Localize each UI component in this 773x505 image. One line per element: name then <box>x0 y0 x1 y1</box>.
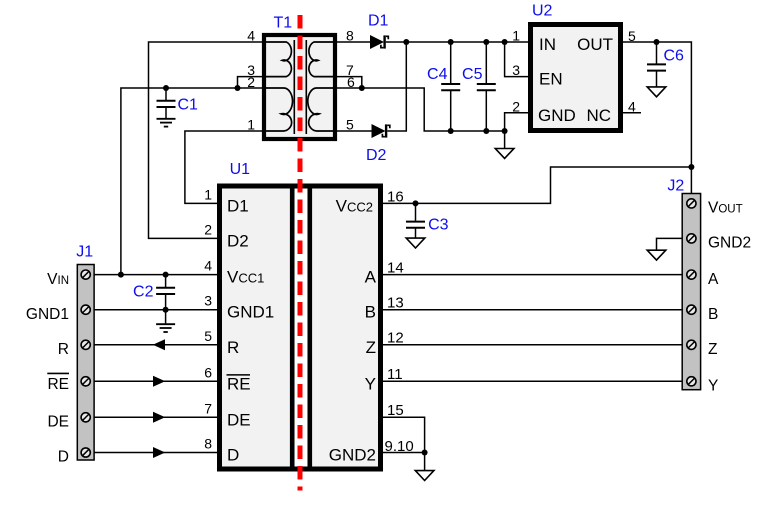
svg-text:D: D <box>58 449 69 466</box>
connector J1 <box>77 265 94 461</box>
svg-text:VCC2: VCC2 <box>336 196 373 215</box>
capacitor C3 <box>406 203 425 238</box>
wire R row <box>94 344 217 346</box>
svg-text:1: 1 <box>204 186 212 202</box>
ground C1 (earth) <box>157 119 176 127</box>
svg-text:C2: C2 <box>133 284 154 301</box>
node C2 bottom <box>163 307 169 313</box>
isolation barrier (red dashed line) <box>298 15 303 491</box>
node C5 top <box>483 39 489 45</box>
svg-text:1: 1 <box>512 27 520 43</box>
J1 terminal GND1 <box>81 305 90 314</box>
T1 primary winding upper (pins 4-3) <box>265 42 291 77</box>
arrow D (input, points right) <box>153 447 165 458</box>
node C1 tap <box>163 85 169 91</box>
svg-text:DE: DE <box>47 414 69 431</box>
wire T1 pin8 to D1 anode <box>337 41 370 43</box>
transformer T1 <box>264 35 335 139</box>
svg-text:GND2: GND2 <box>708 235 751 252</box>
J2 terminal Z <box>687 340 696 349</box>
ground C3 <box>406 238 425 248</box>
wire GND1 row <box>94 309 217 311</box>
connector J2 <box>682 194 700 390</box>
svg-text:RE: RE <box>227 374 251 393</box>
capacitor C4 <box>441 42 460 131</box>
wire U1 Y row to J2 <box>383 380 682 382</box>
arrow DE (input, points right) <box>153 412 165 423</box>
wire T1 pin4 to U1 pin2 (D2) <box>149 42 263 238</box>
svg-text:OUT: OUT <box>577 35 613 54</box>
svg-text:6: 6 <box>204 364 212 380</box>
svg-text:8: 8 <box>204 436 212 452</box>
svg-text:GND: GND <box>538 106 576 125</box>
wire T1 pin2 net to VIN <box>121 88 262 275</box>
node T1 pin2/pin3 junction <box>235 85 241 91</box>
svg-text:D: D <box>227 446 239 465</box>
svg-text:C6: C6 <box>664 48 685 65</box>
svg-text:U1: U1 <box>230 161 251 178</box>
svg-text:EN: EN <box>539 70 563 89</box>
wire U2 OUT to J2 VOUT <box>623 42 691 203</box>
diode D1 (schottky) <box>370 35 388 49</box>
node C5 bottom <box>483 128 489 134</box>
node VOUT net joint <box>688 164 694 170</box>
wire U2 NC stub <box>623 112 641 114</box>
node EN tie to rail <box>502 39 508 45</box>
svg-text:C4: C4 <box>427 66 448 83</box>
svg-text:VCC1: VCC1 <box>227 268 264 287</box>
svg-text:DE: DE <box>227 410 251 429</box>
svg-text:J2: J2 <box>667 177 684 194</box>
J1 RE overline <box>47 372 69 374</box>
node T1 pin6/pin7 junction <box>359 85 365 91</box>
J1 terminal R <box>81 340 90 349</box>
T1 core lines <box>294 40 306 134</box>
svg-text:A: A <box>708 271 719 288</box>
svg-text:T1: T1 <box>274 15 293 32</box>
wire U2 GND to return rail <box>505 113 528 131</box>
T1 primary winding lower (pins 2-1) <box>265 88 293 131</box>
node D2 riser / rail <box>403 39 409 45</box>
J1 terminal VIN <box>81 270 90 279</box>
capacitor C6 <box>647 42 666 87</box>
svg-text:C3: C3 <box>428 216 449 233</box>
capacitor C2 <box>156 275 175 310</box>
T1 secondary winding upper (pins 8-7) <box>309 42 334 77</box>
svg-text:C5: C5 <box>462 66 483 83</box>
ground below return rail <box>495 131 514 158</box>
svg-text:Z: Z <box>366 338 376 357</box>
J1 terminal RE <box>81 377 90 386</box>
ground U1 GND2 <box>415 453 434 481</box>
svg-text:1: 1 <box>247 117 255 133</box>
svg-text:3: 3 <box>512 62 520 78</box>
svg-text:3: 3 <box>204 293 212 309</box>
wire RE row <box>94 380 217 382</box>
svg-text:J1: J1 <box>76 244 93 261</box>
wire U1 B row to J2 <box>383 309 682 311</box>
node C3 tap <box>413 200 419 206</box>
svg-text:2: 2 <box>204 221 212 237</box>
svg-text:RE: RE <box>47 376 69 393</box>
wire U1 pin 9.10 <box>383 452 425 454</box>
svg-text:GND2: GND2 <box>329 446 376 465</box>
node VIN riser <box>118 272 124 278</box>
svg-text:R: R <box>227 338 239 357</box>
svg-text:D2: D2 <box>366 147 387 164</box>
svg-text:GND1: GND1 <box>26 306 69 323</box>
wire T1 pin5 to D2 anode <box>337 130 372 132</box>
node C4 bottom <box>448 128 454 134</box>
U2 pin labels <box>538 35 613 125</box>
wire D row <box>94 452 217 454</box>
wire J2 GND2 to ground <box>657 238 683 250</box>
J2 terminal Y <box>687 377 696 386</box>
svg-text:4: 4 <box>204 258 212 274</box>
ground C2 (earth) <box>156 310 175 332</box>
J2 terminal A <box>687 270 696 279</box>
J1 terminal DE <box>81 413 90 422</box>
U1 left pin numbers <box>204 186 212 451</box>
wire U1 VCC2 to VOUT net <box>383 167 691 203</box>
T1 secondary winding lower (pins 6-5) <box>308 88 334 131</box>
J2 terminal GND2 <box>687 234 696 243</box>
regulator U2 <box>531 25 621 131</box>
wire T1 pin1 to U1 pin1 (D1) <box>185 131 262 203</box>
wire U2 EN tie <box>505 42 528 77</box>
U2 pin numbers <box>512 27 636 114</box>
U1 right pin labels <box>329 196 377 464</box>
svg-text:B: B <box>708 306 718 323</box>
capacitor C1 <box>157 88 176 118</box>
svg-text:A: A <box>365 268 377 287</box>
svg-text:U2: U2 <box>532 3 553 20</box>
T1 pin numbers right (8,7,6,5) <box>346 28 355 133</box>
svg-text:7: 7 <box>204 400 212 416</box>
wire D1 cathode to U2 IN (5V rail) <box>386 41 528 43</box>
svg-text:R: R <box>58 341 69 358</box>
svg-text:GND1: GND1 <box>227 303 274 322</box>
svg-text:Z: Z <box>708 341 717 358</box>
arrow RE (input, points right) <box>153 376 165 387</box>
wire U1 pin15 tie to GND2 <box>383 417 425 452</box>
svg-text:D1: D1 <box>368 13 389 30</box>
J2 port labels <box>708 200 751 395</box>
capacitor C5 <box>477 42 496 131</box>
arrow R (output, points left) <box>153 339 165 350</box>
node pin15/9.10 junction <box>422 450 428 456</box>
U1 left pin labels <box>227 196 274 464</box>
T1 pin numbers left (4,3,2,1) <box>247 28 255 133</box>
svg-text:Y: Y <box>365 374 376 393</box>
svg-text:5: 5 <box>204 328 212 344</box>
node C4 top <box>448 39 454 45</box>
wire DE row <box>94 416 217 418</box>
svg-text:4: 4 <box>247 28 255 44</box>
J1 port labels <box>26 271 69 466</box>
node C2 top <box>163 272 169 278</box>
diode D2 (schottky) <box>372 124 390 138</box>
ground C6 <box>647 87 666 97</box>
node GND rail end <box>502 128 508 134</box>
wire T1 pin7 <box>337 77 362 88</box>
wire U1 A row to J2 <box>383 274 682 276</box>
U1 RE overline <box>227 374 251 376</box>
svg-text:2: 2 <box>512 98 520 114</box>
J1 terminal D <box>81 448 90 457</box>
svg-text:Y: Y <box>708 378 718 395</box>
svg-text:B: B <box>365 303 376 322</box>
wire T1 pin3 <box>238 77 263 88</box>
svg-text:IN: IN <box>539 35 556 54</box>
svg-text:D2: D2 <box>227 231 249 250</box>
wire T1 pin6 center-tap to rectifier return rail <box>337 88 505 131</box>
svg-text:C1: C1 <box>178 96 199 113</box>
wire D2 cathode riser to 5V rail <box>387 42 406 131</box>
J2 terminal VOUT <box>687 199 696 208</box>
node C6 tap <box>654 39 660 45</box>
svg-text:D1: D1 <box>227 196 249 215</box>
wire VIN row <box>94 274 217 276</box>
svg-text:NC: NC <box>586 106 611 125</box>
U1 right pin numbers <box>385 188 414 455</box>
J2 terminal B <box>687 305 696 314</box>
svg-text:8: 8 <box>346 28 354 44</box>
isolated RS-485 transceiver U1 <box>220 186 381 469</box>
svg-text:5: 5 <box>346 117 354 133</box>
ground J2 GND2 <box>647 250 666 260</box>
wire U1 Z row to J2 <box>383 344 682 346</box>
